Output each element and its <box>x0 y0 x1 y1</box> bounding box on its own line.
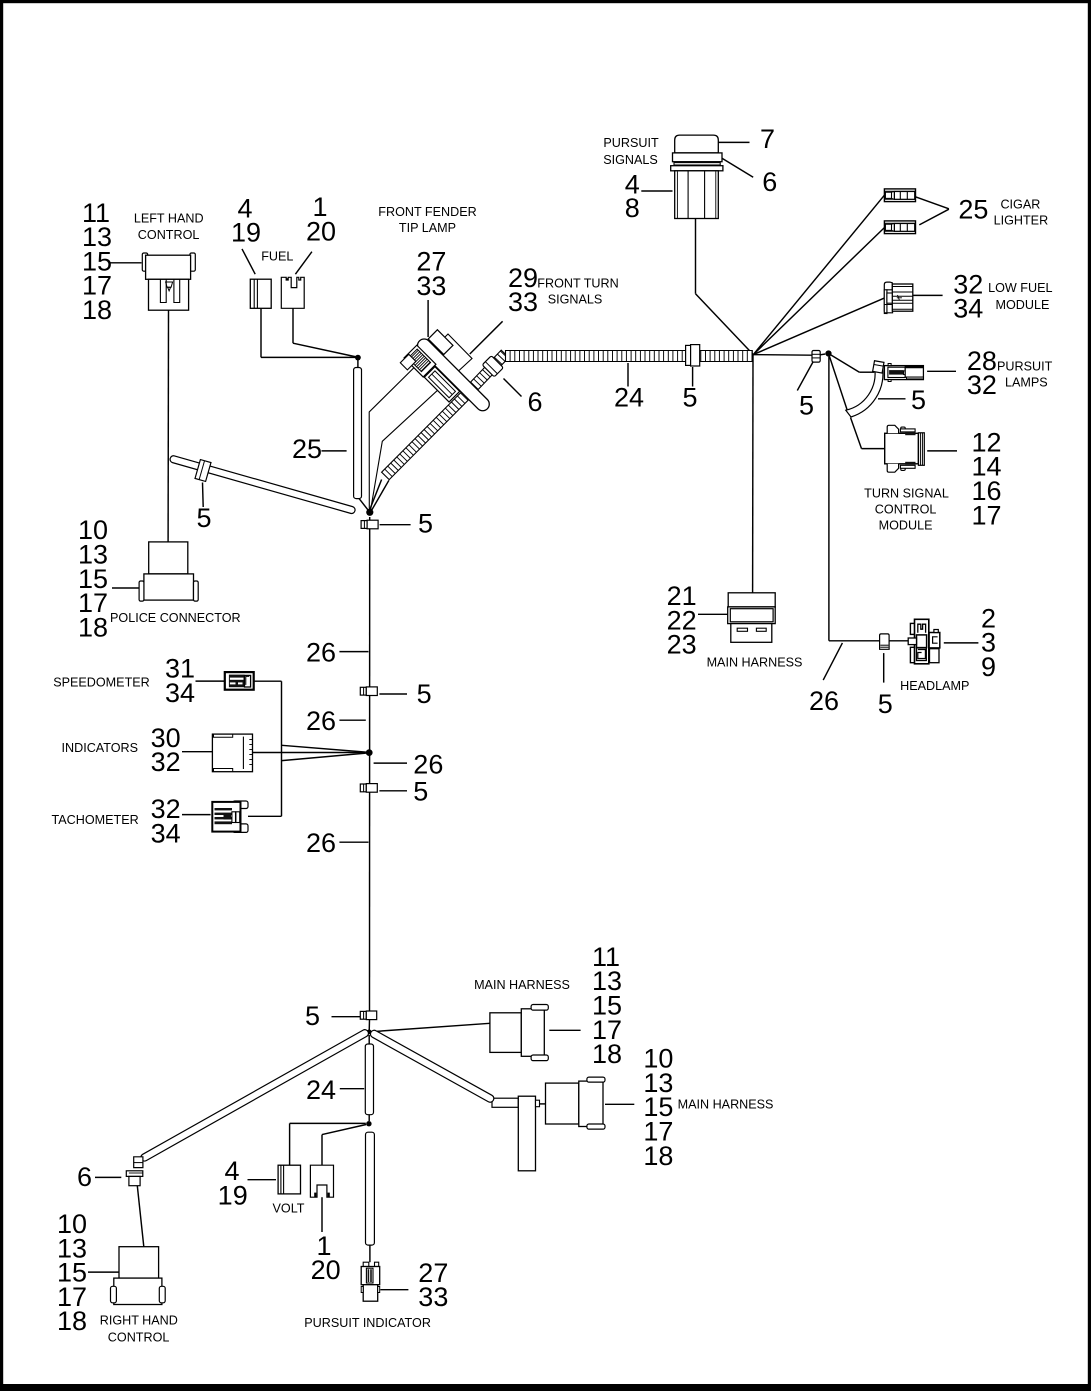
svg-text:6: 6 <box>762 167 777 197</box>
svg-text:8: 8 <box>625 193 640 223</box>
svg-text:POLICE CONNECTOR: POLICE CONNECTOR <box>110 611 241 625</box>
svg-text:CONTROL: CONTROL <box>138 228 200 242</box>
svg-text:VOLT: VOLT <box>273 1202 305 1216</box>
svg-text:6: 6 <box>77 1162 92 1192</box>
svg-text:18: 18 <box>592 1039 622 1069</box>
svg-text:LIGHTER: LIGHTER <box>994 213 1049 227</box>
svg-text:26: 26 <box>306 828 336 858</box>
svg-text:RIGHT HAND: RIGHT HAND <box>100 1314 178 1328</box>
svg-text:LOW FUEL: LOW FUEL <box>988 281 1052 295</box>
svg-text:26: 26 <box>413 749 443 779</box>
svg-text:25: 25 <box>958 195 988 225</box>
svg-text:TIP LAMP: TIP LAMP <box>399 221 456 235</box>
svg-text:CONTROL: CONTROL <box>875 503 937 517</box>
svg-text:33: 33 <box>416 271 446 301</box>
svg-text:HEADLAMP: HEADLAMP <box>900 679 969 693</box>
svg-text:MAIN HARNESS: MAIN HARNESS <box>678 1098 774 1112</box>
svg-text:PURSUIT: PURSUIT <box>997 359 1053 373</box>
svg-text:18: 18 <box>82 295 112 325</box>
svg-text:SIGNALS: SIGNALS <box>548 293 603 307</box>
svg-text:20: 20 <box>306 216 336 246</box>
svg-text:FRONT FENDER: FRONT FENDER <box>378 205 476 219</box>
svg-text:20: 20 <box>311 1255 341 1285</box>
svg-text:PURSUIT INDICATOR: PURSUIT INDICATOR <box>304 1316 431 1330</box>
svg-text:FRONT TURN: FRONT TURN <box>537 277 618 291</box>
svg-text:26: 26 <box>809 686 839 716</box>
svg-text:19: 19 <box>231 218 261 248</box>
svg-text:24: 24 <box>306 1075 336 1105</box>
svg-text:19: 19 <box>218 1180 248 1210</box>
svg-text:5: 5 <box>799 391 814 421</box>
svg-text:25: 25 <box>292 434 322 464</box>
svg-text:MAIN HARNESS: MAIN HARNESS <box>707 655 803 669</box>
svg-text:CONTROL: CONTROL <box>108 1331 170 1345</box>
svg-text:5: 5 <box>878 689 893 719</box>
svg-text:32: 32 <box>967 370 997 400</box>
svg-text:17: 17 <box>972 500 1002 530</box>
svg-text:26: 26 <box>306 706 336 736</box>
svg-text:MODULE: MODULE <box>879 519 933 533</box>
svg-text:5: 5 <box>196 503 211 533</box>
svg-text:PURSUIT: PURSUIT <box>603 136 659 150</box>
svg-text:9: 9 <box>981 652 996 682</box>
svg-text:7: 7 <box>760 124 775 154</box>
svg-text:26: 26 <box>306 638 336 668</box>
svg-text:MODULE: MODULE <box>996 298 1050 312</box>
svg-text:5: 5 <box>417 679 432 709</box>
svg-text:5: 5 <box>682 383 697 413</box>
svg-text:23: 23 <box>667 630 697 660</box>
svg-text:34: 34 <box>953 294 983 324</box>
svg-text:TURN SIGNAL: TURN SIGNAL <box>864 487 949 501</box>
svg-text:34: 34 <box>165 678 195 708</box>
svg-text:SIGNALS: SIGNALS <box>603 153 658 167</box>
svg-text:33: 33 <box>418 1282 448 1312</box>
svg-text:TACHOMETER: TACHOMETER <box>52 813 139 827</box>
svg-text:CIGAR: CIGAR <box>1000 197 1040 211</box>
svg-text:5: 5 <box>911 385 926 415</box>
svg-text:5: 5 <box>413 777 428 807</box>
svg-text:LEFT HAND: LEFT HAND <box>134 211 204 225</box>
svg-text:18: 18 <box>643 1141 673 1171</box>
svg-text:5: 5 <box>305 1001 320 1031</box>
svg-text:34: 34 <box>151 818 181 848</box>
svg-text:33: 33 <box>508 287 538 317</box>
svg-text:32: 32 <box>151 747 181 777</box>
svg-text:18: 18 <box>57 1306 87 1336</box>
svg-text:SPEEDOMETER: SPEEDOMETER <box>53 676 150 690</box>
svg-text:6: 6 <box>528 387 543 417</box>
svg-text:MAIN HARNESS: MAIN HARNESS <box>474 978 570 992</box>
svg-text:INDICATORS: INDICATORS <box>62 741 139 755</box>
svg-text:5: 5 <box>418 508 433 538</box>
svg-text:18: 18 <box>78 612 108 642</box>
svg-text:LAMPS: LAMPS <box>1005 375 1048 389</box>
svg-text:24: 24 <box>614 383 644 413</box>
svg-text:FUEL: FUEL <box>261 249 293 263</box>
